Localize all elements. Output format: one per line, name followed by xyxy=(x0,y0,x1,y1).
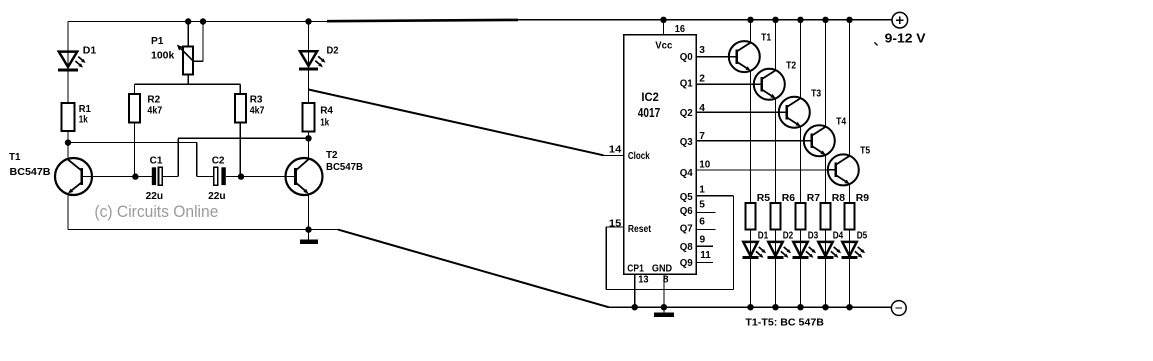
svg-text:R7: R7 xyxy=(807,193,821,204)
wire R9 to LED D5 xyxy=(849,230,851,308)
pin 13 CP1 lead xyxy=(634,274,636,307)
svg-text:Q7: Q7 xyxy=(680,224,693,235)
wire Q1 pin 2 stub to T2 base xyxy=(696,83,755,85)
transistor T2 BC547B xyxy=(286,158,323,195)
svg-text:T1-T5: BC 547B: T1-T5: BC 547B xyxy=(745,317,824,329)
node T1 collector junction xyxy=(65,139,71,145)
wire T4 collector from rail xyxy=(825,20,827,127)
svg-text:Q5: Q5 xyxy=(680,192,693,203)
wire Q0 pin 3 stub to T1 base xyxy=(696,56,730,58)
svg-text:R5: R5 xyxy=(757,193,771,204)
wire T2 emitter to ground xyxy=(308,194,310,230)
label GND xyxy=(652,263,672,274)
wire R3 lead down to T2 base node xyxy=(239,123,241,177)
watermark (c) Circuits Online xyxy=(94,202,218,221)
label pin 6 xyxy=(699,217,705,228)
label T5 xyxy=(860,145,870,156)
label Q7 xyxy=(680,224,693,235)
svg-text:C2: C2 xyxy=(212,155,225,166)
svg-text:1: 1 xyxy=(699,185,705,196)
label T3 xyxy=(811,89,821,100)
wire T3 collector from rail xyxy=(800,20,802,98)
wire T1 collector to C2 (upper horizontal) xyxy=(68,142,197,144)
node T2 emitter junction xyxy=(305,226,311,232)
svg-text:D3: D3 xyxy=(808,231,819,242)
svg-text:R1: R1 xyxy=(79,104,91,115)
wire R7 to LED D3 xyxy=(800,230,802,308)
label T2 BC547B xyxy=(326,150,363,173)
node T2 collector rail junction xyxy=(772,17,778,23)
label T1 BC547B xyxy=(9,152,50,178)
transistor T4 xyxy=(804,125,835,156)
svg-text:(c) Circuits Online: (c) Circuits Online xyxy=(94,202,218,221)
svg-text:R9: R9 xyxy=(856,193,870,204)
svg-text:13: 13 xyxy=(638,274,649,285)
label pin 10 xyxy=(699,159,710,170)
svg-text:14: 14 xyxy=(609,145,622,156)
wire P1 bottom lead xyxy=(187,74,189,84)
svg-text:CP1: CP1 xyxy=(627,263,644,274)
label T1-T5: BC 547B xyxy=(745,317,824,329)
svg-text:D1: D1 xyxy=(83,46,97,57)
label D2 xyxy=(327,45,340,56)
transistor T5 xyxy=(828,154,859,185)
svg-text:T3: T3 xyxy=(811,89,821,100)
label Q1 xyxy=(680,79,693,90)
svg-text:Vcc: Vcc xyxy=(655,40,672,51)
svg-text:P1: P1 xyxy=(151,36,164,47)
resistor R9 xyxy=(844,203,854,230)
svg-text:9-12 V: 9-12 V xyxy=(885,30,926,45)
svg-text:R6: R6 xyxy=(782,193,796,204)
wire C2 to T2 base xyxy=(226,176,286,178)
label D2 output xyxy=(783,231,794,242)
label T4 xyxy=(836,117,846,128)
svg-text:15: 15 xyxy=(609,218,622,229)
node D1 bottom junction xyxy=(747,304,753,310)
svg-text:Q2: Q2 xyxy=(680,108,693,119)
capacitor C1 22u xyxy=(152,167,163,185)
capacitor C2 22u xyxy=(214,167,226,185)
wire T1 emitter to ground rail xyxy=(67,194,69,230)
svg-text:Clock: Clock xyxy=(628,151,650,162)
wire clock diagonal from D2/R4 node to IC pin 14 xyxy=(309,90,624,156)
label D3 output xyxy=(808,231,819,242)
wire Reset pin 15 to Q5 loop xyxy=(606,196,733,290)
resistor R6 xyxy=(770,203,780,230)
wire Q2 pin 4 stub to T3 base xyxy=(696,111,780,113)
label pin 9 xyxy=(700,234,706,245)
wire T4 emitter to R8 xyxy=(825,155,827,203)
svg-text:R3: R3 xyxy=(250,94,263,105)
wire T2 collector from rail xyxy=(775,20,777,70)
label R7 xyxy=(807,193,821,204)
node D5 bottom junction xyxy=(846,304,852,310)
label R5 xyxy=(757,193,771,204)
svg-text:BC547B: BC547B xyxy=(326,162,363,173)
node D2 branch junction xyxy=(305,18,311,24)
label pin 13 xyxy=(638,274,649,285)
LED D2 output xyxy=(768,242,791,258)
svg-text:22u: 22u xyxy=(208,191,226,202)
svg-text:Q9: Q9 xyxy=(680,258,693,269)
wire P1 top lead xyxy=(187,22,189,47)
resistor R2 4k7 xyxy=(129,94,140,123)
label pin 11 xyxy=(700,250,711,261)
label Clock xyxy=(628,151,650,162)
wire Q3 pin 7 stub to T4 base xyxy=(696,140,805,142)
LED D1 xyxy=(58,52,85,70)
label R8 xyxy=(832,193,846,204)
LED D2 xyxy=(299,51,325,69)
svg-text:T5: T5 xyxy=(860,145,870,156)
LED D5 output xyxy=(842,242,865,258)
wire top supply rail (right section) xyxy=(516,19,891,21)
transistor T3 xyxy=(779,97,810,128)
svg-text:D5: D5 xyxy=(857,231,868,242)
transistor T1 BC547B xyxy=(55,158,92,195)
node D3 bottom junction xyxy=(797,304,803,310)
svg-text:1k: 1k xyxy=(79,115,88,126)
node D2 bottom junction xyxy=(772,304,778,310)
label R3 4k7 xyxy=(250,94,265,116)
svg-text:1k: 1k xyxy=(320,117,329,128)
svg-text:7: 7 xyxy=(699,131,705,142)
svg-text:Q0: Q0 xyxy=(680,52,693,63)
pin 8 GND lead xyxy=(663,274,665,307)
label D4 output xyxy=(833,231,844,242)
resistor R5 xyxy=(745,203,755,230)
pin 16 Vcc lead xyxy=(663,20,665,35)
label pin 4 xyxy=(699,103,705,114)
label D1 xyxy=(83,46,97,57)
svg-text:D2: D2 xyxy=(783,231,794,242)
label pin 7 xyxy=(699,131,705,142)
label R2 4k7 xyxy=(147,94,162,116)
resistor R4 1k xyxy=(302,103,314,131)
LED D4 output xyxy=(818,242,841,258)
label T1 xyxy=(761,33,771,44)
label R4 1k xyxy=(320,106,333,129)
svg-text:T4: T4 xyxy=(836,117,846,128)
wire C1 right riser xyxy=(162,138,178,176)
plus supply terminal 9-12V xyxy=(892,12,908,28)
wire R1 to T1 collector xyxy=(67,131,69,159)
svg-text:11: 11 xyxy=(700,250,711,261)
wire P1 wiper to rail xyxy=(194,22,204,62)
node T1 collector rail junction xyxy=(747,17,753,23)
IC U2 4017 body xyxy=(624,35,696,275)
svg-text:Q4: Q4 xyxy=(680,168,693,179)
node T1 base junction xyxy=(132,173,138,179)
label pin 14 xyxy=(609,145,622,156)
resistor R8 xyxy=(820,203,830,230)
label C1 22u xyxy=(146,155,164,202)
minus supply terminal xyxy=(891,301,906,316)
wire top supply rail (middle thick section) xyxy=(327,20,518,21)
svg-text:Reset: Reset xyxy=(628,224,652,235)
label Q4 xyxy=(680,168,693,179)
svg-text:8: 8 xyxy=(663,274,669,285)
label P1 100k xyxy=(151,36,175,62)
label Q9 xyxy=(680,258,693,269)
svg-text:Q1: Q1 xyxy=(680,79,693,90)
label Q2 xyxy=(680,108,693,119)
svg-text:Q3: Q3 xyxy=(680,137,693,148)
node P1 wiper junction xyxy=(200,18,206,24)
svg-text:D1: D1 xyxy=(758,231,769,242)
node T2 base junction xyxy=(238,173,244,179)
svg-text:T1: T1 xyxy=(9,152,21,163)
svg-text:4: 4 xyxy=(699,103,705,114)
label Reset xyxy=(628,224,652,235)
label C2 22u xyxy=(208,155,226,202)
svg-text:5: 5 xyxy=(699,200,705,211)
svg-text:100k: 100k xyxy=(151,51,175,62)
node pin16 junction xyxy=(660,17,666,23)
label pin 16 xyxy=(675,24,685,35)
svg-text:2: 2 xyxy=(699,73,705,84)
label CP1 xyxy=(627,263,644,274)
label D5 output xyxy=(857,231,868,242)
node T3 collector rail junction xyxy=(797,17,803,23)
LED D1 output xyxy=(743,242,766,258)
wire T2 emitter to R6 xyxy=(775,98,777,203)
label Q8 xyxy=(680,242,693,253)
svg-text:3: 3 xyxy=(699,45,705,56)
svg-text:GND: GND xyxy=(652,263,672,274)
label D1 output xyxy=(758,231,769,242)
wire Q6 pin 5 stub xyxy=(696,212,715,214)
svg-text:T2: T2 xyxy=(786,61,796,72)
svg-text:D2: D2 xyxy=(327,45,340,56)
wire T3 emitter to R7 xyxy=(800,126,802,203)
label pin 5 xyxy=(699,200,705,211)
node T5 collector rail junction xyxy=(846,17,852,23)
label pin 1 xyxy=(699,185,705,196)
label R9 xyxy=(856,193,870,204)
node pin13 bottom junction xyxy=(632,304,638,310)
wire R4 to T2 collector xyxy=(308,131,310,158)
node P1 top junction xyxy=(185,18,191,24)
transistor T2 xyxy=(754,69,785,100)
LED D3 output xyxy=(793,242,816,258)
node D4 bottom junction xyxy=(822,304,828,310)
svg-text:IC2: IC2 xyxy=(641,90,658,104)
label pin 8 xyxy=(663,274,669,285)
wire T1 collector from rail xyxy=(750,20,752,43)
wire Q5 pin 1 stub xyxy=(696,195,733,197)
wire R2 lead down to T1 base node xyxy=(134,123,136,177)
wire top supply rail (left section) xyxy=(68,21,330,23)
label T2 xyxy=(786,61,796,72)
wire Q8 pin 9 stub xyxy=(696,245,713,247)
resistor R1 xyxy=(61,103,74,131)
wire T1 emitter to R5 xyxy=(750,71,752,204)
wire Q9 pin 11 stub xyxy=(696,261,713,263)
wire left bottom rail xyxy=(68,229,338,231)
wire rail to D2 xyxy=(308,22,310,104)
svg-text:T2: T2 xyxy=(326,150,338,161)
wire ground diagonal from left rail to right rail xyxy=(338,230,609,308)
svg-text:BC547B: BC547B xyxy=(10,167,51,178)
ground symbol right xyxy=(654,307,674,315)
resistor R7 xyxy=(795,203,805,230)
svg-text:10: 10 xyxy=(699,159,710,170)
label pin 3 xyxy=(699,45,705,56)
label Q5 xyxy=(680,192,693,203)
svg-text:4k7: 4k7 xyxy=(147,105,162,116)
svg-text:R4: R4 xyxy=(320,106,333,117)
svg-text:R2: R2 xyxy=(147,94,160,105)
wire left rail top segment xyxy=(67,22,69,104)
svg-text:Q8: Q8 xyxy=(680,242,693,253)
node T4 collector rail junction xyxy=(822,17,828,23)
svg-text:C1: C1 xyxy=(150,155,163,166)
svg-text:22u: 22u xyxy=(146,191,164,202)
wire T5 emitter to R9 xyxy=(849,184,851,203)
label IC2 4017 xyxy=(638,90,660,120)
wire C2 left riser xyxy=(197,143,214,177)
label R1 1k xyxy=(79,104,91,126)
wire Q7 pin 6 stub xyxy=(696,229,715,231)
label pin 2 xyxy=(699,73,705,84)
label Q3 xyxy=(680,137,693,148)
label Q0 xyxy=(680,52,693,63)
potentiometer P1 100k xyxy=(177,45,194,75)
svg-text:4k7: 4k7 xyxy=(250,105,265,116)
wire T1 base to C1 xyxy=(92,176,153,178)
wire R2-P1-R3 horizontal xyxy=(135,84,241,94)
svg-text:T1: T1 xyxy=(761,33,771,44)
svg-text:16: 16 xyxy=(675,24,685,35)
label 9-12 V xyxy=(874,30,926,45)
wire R8 to LED D4 xyxy=(825,230,827,308)
node T2 collector junction xyxy=(305,135,311,141)
wire T2 collector to C1 (upper horizontal) xyxy=(178,137,308,139)
resistor R3 4k7 xyxy=(235,94,246,123)
label pin 15 xyxy=(609,218,622,229)
wire bottom rail right xyxy=(608,306,892,308)
ground symbol left xyxy=(300,230,318,242)
label R6 xyxy=(782,193,796,204)
svg-text:D4: D4 xyxy=(833,231,844,242)
node pin8 bottom junction xyxy=(661,304,667,310)
label Vcc xyxy=(655,40,672,51)
transistor T1 xyxy=(729,41,760,72)
svg-text:6: 6 xyxy=(699,217,705,228)
label Q6 xyxy=(680,206,693,217)
svg-text:Q6: Q6 xyxy=(680,206,693,217)
wire R5 to LED D1 xyxy=(750,230,752,308)
wire T5 collector from rail xyxy=(849,20,851,156)
wire Q4 pin 10 stub to T5 base xyxy=(696,169,829,171)
svg-text:9: 9 xyxy=(700,234,706,245)
wire R6 to LED D2 xyxy=(775,230,777,308)
svg-text:4017: 4017 xyxy=(638,105,660,120)
